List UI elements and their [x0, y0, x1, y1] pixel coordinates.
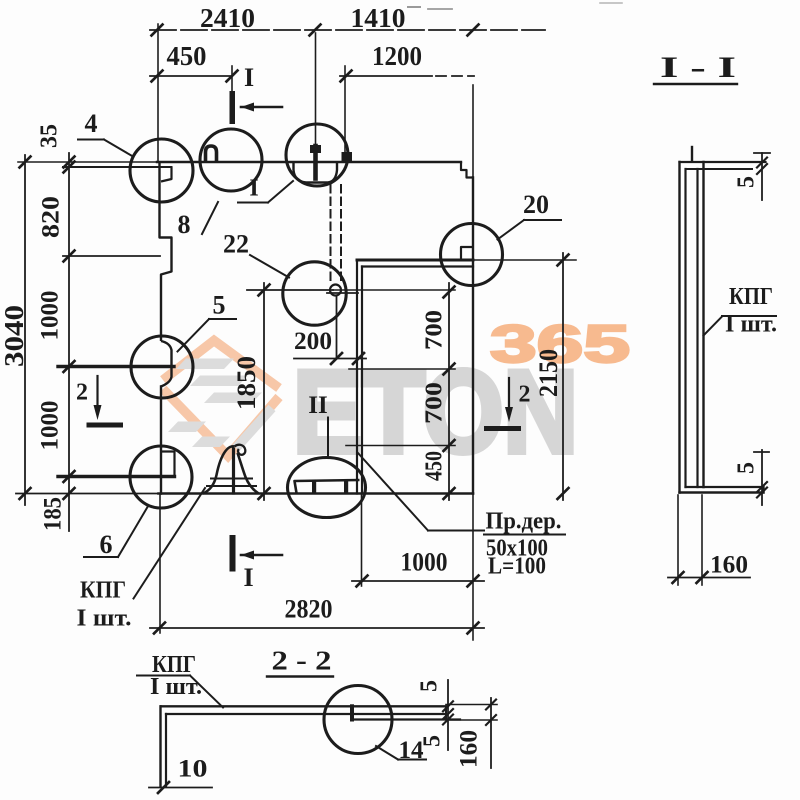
- svg-text:2150: 2150: [534, 349, 563, 397]
- svg-text:2410: 2410: [200, 3, 255, 33]
- svg-text:I: I: [244, 63, 254, 92]
- svg-text:1410: 1410: [351, 3, 406, 33]
- svg-text:2 - 2: 2 - 2: [272, 646, 332, 676]
- svg-text:5: 5: [213, 290, 226, 319]
- svg-text:450: 450: [167, 41, 207, 71]
- svg-text:8: 8: [178, 210, 191, 239]
- svg-text:КПГ: КПГ: [80, 578, 126, 604]
- svg-text:5: 5: [734, 462, 760, 474]
- svg-text:I: I: [249, 176, 258, 202]
- svg-text:I шт.: I шт.: [77, 606, 132, 632]
- svg-text:1850: 1850: [232, 356, 261, 410]
- svg-text:1000: 1000: [401, 547, 448, 576]
- svg-text:185: 185: [40, 497, 67, 531]
- svg-text:160: 160: [710, 552, 748, 579]
- svg-text:200: 200: [294, 328, 332, 355]
- svg-text:КПГ: КПГ: [729, 284, 773, 310]
- svg-text:2820: 2820: [285, 594, 333, 623]
- svg-text:820: 820: [38, 196, 65, 238]
- svg-text:I шт.: I шт.: [150, 674, 202, 700]
- svg-text:10: 10: [178, 756, 208, 783]
- svg-text:700: 700: [422, 310, 448, 350]
- svg-text:450: 450: [422, 451, 448, 481]
- svg-text:4: 4: [85, 109, 98, 138]
- svg-text:1000: 1000: [37, 401, 64, 451]
- svg-text:5: 5: [417, 680, 443, 692]
- svg-text:700: 700: [422, 382, 448, 424]
- svg-text:5: 5: [734, 176, 760, 188]
- svg-text:160: 160: [456, 730, 483, 768]
- svg-text:II: II: [308, 392, 327, 419]
- svg-text:L=100: L=100: [488, 554, 546, 580]
- svg-text:Пр.дер.: Пр.дер.: [486, 509, 562, 535]
- svg-text:I шт.: I шт.: [725, 312, 777, 338]
- svg-text:3040: 3040: [0, 305, 29, 367]
- svg-text:2: 2: [519, 382, 531, 408]
- svg-text:20: 20: [523, 190, 549, 219]
- svg-text:I: I: [243, 563, 253, 592]
- svg-text:5: 5: [420, 735, 446, 747]
- svg-text:35: 35: [37, 124, 63, 148]
- svg-text:1000: 1000: [37, 291, 64, 341]
- svg-text:I - I: I - I: [660, 51, 736, 84]
- svg-text:6: 6: [100, 530, 113, 559]
- svg-text:1200: 1200: [372, 41, 422, 71]
- svg-text:2: 2: [76, 380, 88, 406]
- svg-text:22: 22: [223, 229, 249, 258]
